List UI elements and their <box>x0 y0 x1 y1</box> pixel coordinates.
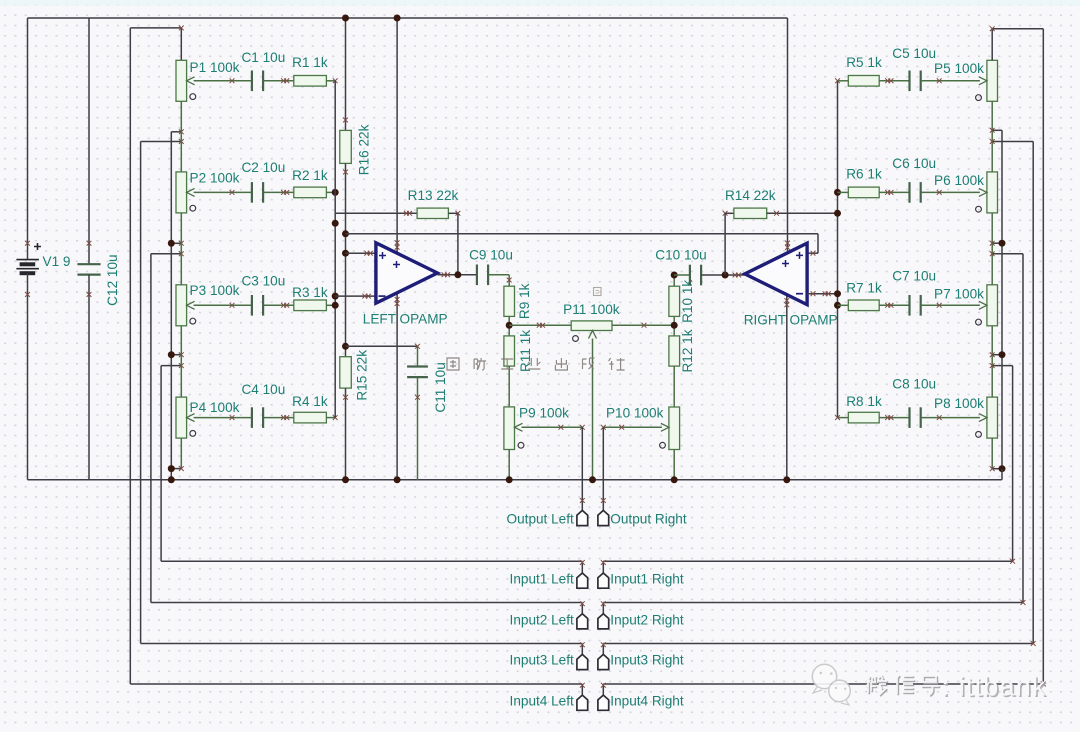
connector Input1 Right <box>598 573 609 588</box>
op-amp U1 LEFT <box>376 243 438 303</box>
label R3 1k <box>292 285 328 300</box>
svg-text:R14 22k: R14 22k <box>725 188 776 203</box>
op-amp U2 RIGHT <box>745 243 807 304</box>
label V1 9 <box>43 254 71 269</box>
label R10 1k <box>680 280 695 323</box>
label Output Left <box>507 511 574 526</box>
wire Input4 Left feed line <box>129 28 131 684</box>
wire left opamp output <box>437 271 477 278</box>
watermark chinese text center <box>447 358 625 370</box>
label C6 10u <box>892 156 936 171</box>
wire P5 top feed <box>990 26 1044 60</box>
svg-text:Output Right: Output Right <box>610 511 687 526</box>
svg-text:Output Left: Output Left <box>507 511 574 526</box>
wire Input3 Right feed line <box>1032 142 1034 644</box>
wire C12 bottom lead <box>87 275 92 480</box>
svg-text:R11 1k: R11 1k <box>518 330 533 372</box>
wire right pot tap 3 <box>990 240 1006 247</box>
svg-text:P5 100k: P5 100k <box>934 61 984 76</box>
wire R13 output side <box>448 211 460 275</box>
wire right opamp - input <box>807 291 837 296</box>
wire left pot tap 3 <box>168 240 184 247</box>
capacitor C4 <box>252 407 263 428</box>
wire right column segment 1 <box>991 101 993 172</box>
svg-text:R9 1k: R9 1k <box>517 283 532 319</box>
label P6 100k <box>934 173 984 188</box>
capacitor C12 <box>77 264 100 274</box>
svg-text:R1 1k: R1 1k <box>292 55 328 70</box>
wire right pot tap 5 <box>990 351 1006 358</box>
resistor R8 <box>848 412 879 423</box>
label C3 10u <box>241 273 285 288</box>
wire bus to R7 <box>838 304 849 306</box>
wire right pot tap 4 <box>990 251 1023 256</box>
connector Input4 Left <box>577 695 588 710</box>
potentiometer P11 <box>571 321 612 342</box>
svg-text:Input2 Left: Input2 Left <box>510 612 574 627</box>
wire Input1 Left lead <box>161 560 585 573</box>
capacitor C6 <box>910 182 921 203</box>
label RIGHT OPAMP <box>744 312 838 327</box>
label Input2 Right <box>610 612 684 627</box>
wire P9 bottom to ground <box>506 450 513 484</box>
wire left pot tap 6 <box>161 363 184 368</box>
label Input2 Left <box>510 612 574 627</box>
label R12 1k <box>680 329 695 372</box>
label P7 100k <box>934 286 984 301</box>
svg-text:R12 1k: R12 1k <box>680 329 695 372</box>
svg-text:R10 1k: R10 1k <box>680 280 695 323</box>
label R11 1k <box>518 330 533 372</box>
wire left opamp - input <box>335 294 376 299</box>
wire Input3 Left lead <box>141 642 585 654</box>
wire C3 to R3 <box>263 303 294 308</box>
wire P1 wiper to C1 <box>194 78 252 83</box>
wire C2 to R2 <box>263 190 294 195</box>
wire Input1 Right lead <box>601 559 1015 573</box>
label R2 1k <box>292 168 328 183</box>
wire left pot tap 1 <box>171 129 183 134</box>
label R1 1k <box>292 55 328 70</box>
svg-text:P10 100k: P10 100k <box>606 406 664 421</box>
wire left column segment 2 <box>180 213 182 285</box>
potentiometer P3 <box>176 285 196 326</box>
resistor R1 <box>294 76 327 87</box>
wire R5 to C5 <box>879 78 909 83</box>
wire R8 to C8 <box>879 415 909 420</box>
wire C12 top lead <box>87 18 92 264</box>
capacitor C3 <box>252 295 263 316</box>
wire left opamp + input <box>346 251 376 256</box>
connector Input2 Right <box>598 614 609 629</box>
wire C11 bottom lead <box>415 377 420 480</box>
label Input1 Left <box>510 571 574 586</box>
wire R7 to C7 <box>879 303 909 308</box>
resistor R7 <box>848 300 879 311</box>
wire R13 input side <box>335 211 417 216</box>
svg-text:P3 100k: P3 100k <box>190 283 240 298</box>
label C2 10u <box>241 160 285 175</box>
label R8 1k <box>846 394 882 409</box>
label Input3 Left <box>510 652 574 667</box>
svg-text:R4 1k: R4 1k <box>292 394 328 409</box>
wire R14 input side <box>767 211 838 216</box>
svg-text:P11 100k: P11 100k <box>563 302 620 317</box>
wire R11 to P9 <box>508 366 510 407</box>
wire right opamp V- line <box>783 295 790 483</box>
capacitor C7 <box>910 295 921 316</box>
svg-text:C7 10u: C7 10u <box>892 268 936 283</box>
wire C1 to R1 <box>263 78 294 83</box>
label P2 100k <box>190 171 240 186</box>
svg-text:C12 10u: C12 10u <box>105 254 120 305</box>
capacitor C5 <box>910 71 921 92</box>
wire P10 wiper to Output Right <box>601 425 662 511</box>
wire bus to R5 <box>838 80 849 82</box>
wire bias bus lower <box>342 388 349 483</box>
wire bias bus upper <box>342 15 349 131</box>
wire P8 bottom to ground <box>990 438 1006 480</box>
potentiometer P7 <box>976 285 998 326</box>
wire Input4 Left lead <box>130 683 584 695</box>
label C1 10u <box>241 50 285 65</box>
label R5 1k <box>846 55 882 70</box>
label R14 22k <box>725 188 776 203</box>
wire R14 output side <box>723 211 734 275</box>
label C9 10u <box>469 248 513 263</box>
label R6 1k <box>846 166 882 181</box>
wire P9 wiper to Output Left <box>522 425 585 511</box>
wire P11 left lead <box>509 323 571 328</box>
wire battery negative lead <box>25 273 30 480</box>
svg-text:P8 100k: P8 100k <box>934 396 984 411</box>
watermark fragment box <box>594 288 602 296</box>
label Input3 Right <box>610 652 684 667</box>
wire bus to R8 <box>838 417 849 419</box>
label R13 22k <box>408 188 459 203</box>
wire right summing bus <box>834 78 841 420</box>
connector Input3 Right <box>598 654 609 669</box>
svg-text:C9 10u: C9 10u <box>469 248 513 263</box>
connector Output Left <box>577 510 588 525</box>
wire R2 to summing bus <box>326 189 338 196</box>
wire left column segment 3 <box>180 326 182 397</box>
svg-text:R7 1k: R7 1k <box>846 281 882 296</box>
battery V1 <box>16 260 39 274</box>
label P9 100k <box>519 406 569 421</box>
svg-text:R3 1k: R3 1k <box>292 285 328 300</box>
resistor R10 <box>669 286 680 316</box>
resistor R9 <box>504 286 515 316</box>
wire Input2 Left feed line <box>150 254 152 603</box>
svg-text:C10 10u: C10 10u <box>655 248 706 263</box>
label P8 100k <box>934 396 984 411</box>
svg-text:Input4 Right: Input4 Right <box>610 693 684 708</box>
svg-text:OPAMP: OPAMP <box>400 311 448 326</box>
svg-text:R13 22k: R13 22k <box>408 188 459 203</box>
wire Input4 Right feed line <box>1042 29 1044 684</box>
label C5 10u <box>892 46 936 61</box>
svg-text:P1 100k: P1 100k <box>190 60 240 75</box>
label P5 100k <box>934 61 984 76</box>
label C11 10u <box>433 362 448 412</box>
svg-text:C8 10u: C8 10u <box>892 376 936 391</box>
watermark wechat icon <box>812 664 850 705</box>
svg-text:P7 100k: P7 100k <box>934 286 984 301</box>
wire P4 bottom to ground <box>168 438 184 483</box>
label P10 100k <box>606 406 664 421</box>
wire R3 to summing bus <box>326 304 335 306</box>
svg-text:C5 10u: C5 10u <box>892 46 936 61</box>
wire right pot tap 1 <box>990 128 1002 133</box>
svg-text:Input1 Left: Input1 Left <box>510 571 574 586</box>
potentiometer P1 <box>176 60 196 101</box>
wire R10 to R12 <box>671 316 678 336</box>
svg-text:Input3 Right: Input3 Right <box>610 652 684 667</box>
connector Input3 Left <box>577 654 588 669</box>
svg-text:C6 10u: C6 10u <box>892 156 936 171</box>
label C7 10u <box>892 268 936 283</box>
connector Input1 Left <box>577 573 588 588</box>
svg-text:C3 10u: C3 10u <box>241 273 285 288</box>
wire right pot tap 2 <box>990 139 1033 144</box>
capacitor C8 <box>910 407 921 428</box>
potentiometer P9 <box>504 407 524 450</box>
wire summing bus A <box>332 81 339 418</box>
resistor R15 <box>340 357 352 388</box>
resistor R3 <box>294 300 327 311</box>
label R16 22k <box>356 124 371 175</box>
wire bias bus middle <box>342 163 349 356</box>
wire left pot tap 5 <box>168 351 184 358</box>
svg-text:C11 10u: C11 10u <box>433 362 448 412</box>
wire C7 to P7 wiper <box>921 303 980 308</box>
wire P4 wiper to C4 <box>194 415 252 420</box>
wire Input3 Right lead <box>601 641 1036 654</box>
connector Input2 Left <box>577 614 588 629</box>
wire right column segment 2 <box>991 213 993 285</box>
resistor R4 <box>294 412 327 423</box>
resistor R6 <box>848 187 879 198</box>
svg-text:P4 100k: P4 100k <box>190 400 240 415</box>
wire R1 to summing bus <box>326 78 337 83</box>
wire Input4 Right lead <box>601 682 1046 696</box>
svg-text:C4 10u: C4 10u <box>241 382 285 397</box>
capacitor C10 <box>690 265 701 286</box>
label R15 22k <box>354 350 369 401</box>
capacitor C1 <box>252 71 263 92</box>
svg-text:Input2 Right: Input2 Right <box>610 612 684 627</box>
capacitor C2 <box>252 182 263 203</box>
wire Input2 Right lead <box>601 600 1026 614</box>
svg-text:P6 100k: P6 100k <box>934 173 984 188</box>
wire P11 wiper to ground <box>589 339 596 484</box>
svg-text:R8 1k: R8 1k <box>846 394 882 409</box>
svg-text:R6 1k: R6 1k <box>846 166 882 181</box>
svg-text:R5 1k: R5 1k <box>846 55 882 70</box>
svg-text:OPAMP: OPAMP <box>790 312 838 327</box>
wire right opamp V+ line <box>785 18 790 253</box>
watermark ittbank text <box>941 671 1048 703</box>
wire bias line to right opamp <box>346 234 819 256</box>
resistor R11 <box>504 336 515 366</box>
resistor R13 <box>417 208 448 218</box>
wire left opamp V- line <box>394 294 401 484</box>
label P3 100k <box>190 283 240 298</box>
svg-text:R15 22k: R15 22k <box>354 350 369 401</box>
label R7 1k <box>846 281 882 296</box>
label Input1 Right <box>610 571 684 586</box>
label C4 10u <box>241 382 285 397</box>
svg-text:R2 1k: R2 1k <box>292 168 328 183</box>
resistor R12 <box>669 336 680 366</box>
label C8 10u <box>892 376 936 391</box>
svg-text:Input4 Left: Input4 Left <box>510 693 574 708</box>
svg-text:R16 22k: R16 22k <box>356 124 371 175</box>
wire C4 to R4 <box>263 415 294 420</box>
wire left pot tap 4 <box>151 251 184 256</box>
resistor R14 <box>734 208 767 218</box>
wire left pot tap 2 <box>141 139 184 144</box>
wire R4 to summing bus <box>326 415 337 420</box>
watermark weixin id text <box>866 675 940 696</box>
label C12 10u <box>105 254 120 305</box>
wire P2 wiper to C2 <box>194 190 252 195</box>
wire left opamp V+ line <box>394 15 401 254</box>
potentiometer P10 <box>660 407 680 450</box>
svg-text:Input1 Right: Input1 Right <box>610 571 684 586</box>
wire left column segment 1 <box>180 101 182 172</box>
svg-text:LEFT: LEFT <box>363 311 396 326</box>
wire right column segment 3 <box>991 326 993 397</box>
svg-text:C1 10u: C1 10u <box>241 50 285 65</box>
wire C8 to P8 wiper <box>921 415 980 420</box>
wire C11 tap <box>346 344 420 367</box>
connector Input4 Right <box>598 695 609 710</box>
wire Input2 Right feed line <box>1022 254 1024 603</box>
label LEFT OPAMP <box>363 311 448 326</box>
capacitor C9 <box>477 265 488 286</box>
wire C5 to P5 wiper <box>921 78 980 83</box>
svg-text:P2 100k: P2 100k <box>190 171 240 186</box>
wire C9 to R9 <box>488 275 512 286</box>
wire Input1 Left feed line <box>160 366 162 562</box>
label Output Right <box>610 511 687 526</box>
resistor R16 <box>340 130 352 163</box>
wire bus to R6 <box>838 191 849 193</box>
wire C10 to right opamp output <box>701 272 745 279</box>
potentiometer P6 <box>976 172 998 213</box>
potentiometer P8 <box>976 397 998 438</box>
label R9 1k <box>517 283 532 319</box>
potentiometer P4 <box>176 397 196 438</box>
potentiometer P5 <box>976 60 998 101</box>
wire P1 top feed <box>130 26 183 61</box>
svg-text:V1 9: V1 9 <box>43 254 71 269</box>
wire R9 to R11 <box>506 316 513 336</box>
wire battery positive lead <box>25 18 41 260</box>
connector Output Right <box>598 510 609 525</box>
wire P11 right lead <box>612 323 674 328</box>
potentiometer P2 <box>176 172 196 213</box>
wire right pot tap 6 <box>990 363 1013 368</box>
label Input4 Right <box>610 693 684 708</box>
label C10 10u <box>655 248 706 263</box>
wire R12 to P10 <box>673 366 675 407</box>
svg-text:P9 100k: P9 100k <box>519 406 569 421</box>
wire C10 left lead <box>671 272 690 287</box>
resistor R5 <box>848 76 879 87</box>
label P1 100k <box>190 60 240 75</box>
resistor R2 <box>294 187 327 198</box>
capacitor C11 <box>407 367 428 378</box>
svg-text:RIGHT: RIGHT <box>744 312 786 327</box>
wire P10 bottom to ground <box>671 450 678 484</box>
svg-text:Input3 Left: Input3 Left <box>510 652 574 667</box>
label Input4 Left <box>510 693 574 708</box>
wire Input1 Right feed line <box>1012 366 1014 562</box>
wire C6 to P6 wiper <box>921 190 980 195</box>
wire top supply bus <box>28 17 788 19</box>
wire Input3 Left feed line <box>140 142 142 644</box>
wire left ground return line <box>170 132 172 480</box>
svg-text:C2 10u: C2 10u <box>241 160 285 175</box>
wire ground bus <box>28 479 1002 481</box>
wire right ground return line <box>1001 130 1003 468</box>
label P4 100k <box>190 400 240 415</box>
wire P3 wiper to C3 <box>194 303 252 308</box>
svg-text:: ittbank: : ittbank <box>941 671 1046 701</box>
wire Input2 Left lead <box>151 601 585 613</box>
label P11 100k <box>563 302 620 317</box>
wire R6 to C6 <box>879 190 909 195</box>
label R4 1k <box>292 394 328 409</box>
